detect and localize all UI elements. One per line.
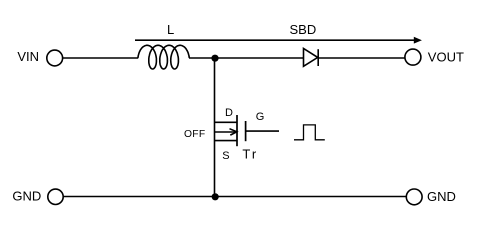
svg-text:OFF: OFF [184, 129, 206, 140]
svg-text:L: L [167, 22, 174, 37]
svg-text:G: G [256, 111, 265, 123]
svg-text:SBD: SBD [290, 22, 317, 37]
svg-text:Tr: Tr [242, 147, 258, 162]
svg-text:GND: GND [12, 189, 41, 204]
svg-text:D: D [225, 107, 233, 119]
svg-text:S: S [222, 150, 229, 162]
svg-text:VIN: VIN [17, 49, 39, 64]
svg-text:GND: GND [427, 189, 456, 204]
svg-text:VOUT: VOUT [428, 49, 464, 64]
